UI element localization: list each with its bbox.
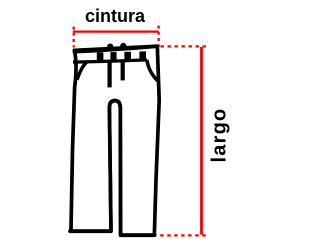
belt loop 2 [110, 52, 116, 60]
belt loop 1 [97, 52, 104, 60]
right pocket curve [147, 60, 158, 81]
cintura measure line [73, 30, 159, 32]
waistband top line [73, 46, 158, 52]
right leg inner seam [119, 106, 123, 235]
right extension dashed [157, 26, 159, 48]
belt loop 3 [124, 52, 131, 60]
largo measure line [200, 47, 203, 235]
fly line left [107, 61, 111, 87]
bottom dotted connector [153, 234, 207, 236]
waistband bottom line [73, 60, 147, 62]
left leg hem [70, 229, 111, 233]
svg-text:largo: largo [209, 108, 231, 163]
left extension dashed [73, 27, 75, 48]
svg-text:cintura: cintura [85, 6, 146, 26]
button left [107, 44, 113, 50]
left pocket curve [77, 61, 88, 80]
pants outline [70, 46, 159, 235]
belt loop 4 [139, 51, 146, 59]
left leg inner seam [109, 106, 111, 231]
crotch arch [109, 101, 120, 108]
button right [120, 43, 126, 49]
top dotted connector [161, 45, 208, 47]
right leg hem [121, 233, 155, 237]
fly line right [121, 61, 125, 81]
